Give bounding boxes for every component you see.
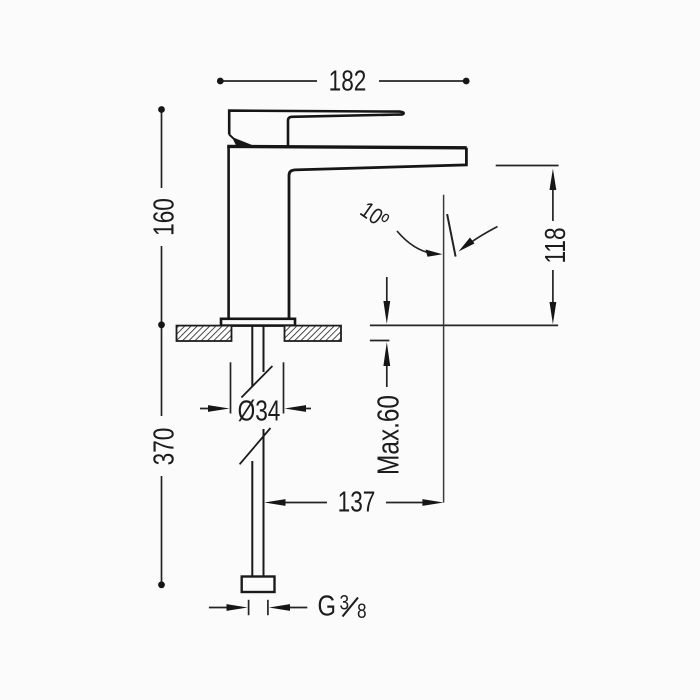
svg-text:160: 160 — [147, 198, 180, 236]
dimension G 3/8 — [209, 600, 307, 615]
body top / spout top edge — [227, 146, 467, 147]
dimension 182 — [220, 80, 466, 82]
dimension 137 — [285, 502, 423, 504]
svg-text:137: 137 — [338, 485, 376, 518]
tilted lever axis line 10deg — [447, 214, 456, 257]
supply pipe — [240, 326, 275, 592]
dimension Max.60 — [386, 277, 388, 387]
body left edge — [227, 147, 230, 319]
svg-text:Ø34: Ø34 — [238, 394, 281, 427]
angle reference vertical line — [443, 195, 445, 503]
countertop reference line — [370, 324, 558, 326]
svg-text:118: 118 — [538, 227, 571, 263]
svg-text:8: 8 — [357, 601, 367, 624]
base flange — [221, 319, 295, 326]
dimension 118 — [496, 166, 559, 303]
spout tip and underside — [289, 148, 466, 319]
leader arc left — [397, 231, 432, 254]
dimension Ø34 — [200, 362, 311, 413]
pipe break slash upper — [241, 366, 272, 398]
svg-text:Max.60: Max.60 — [371, 395, 405, 475]
label G 3/8 — [318, 589, 367, 623]
dimension 160 / 370 vertical line — [161, 110, 163, 585]
handle lever blade outline — [229, 111, 403, 147]
countertop right slab — [285, 326, 342, 341]
countertop left slab — [177, 326, 342, 341]
svg-text:182: 182 — [329, 64, 367, 97]
G3/8 connector nut — [242, 577, 275, 593]
leader arc right — [466, 227, 498, 247]
pipe break slash lower — [240, 428, 271, 464]
svg-text:G: G — [318, 589, 336, 622]
handle-body dark wedge — [235, 140, 253, 147]
svg-text:370: 370 — [147, 428, 180, 466]
countertop bottom reference tick — [370, 340, 390, 342]
handle underside diagonal — [229, 135, 252, 147]
